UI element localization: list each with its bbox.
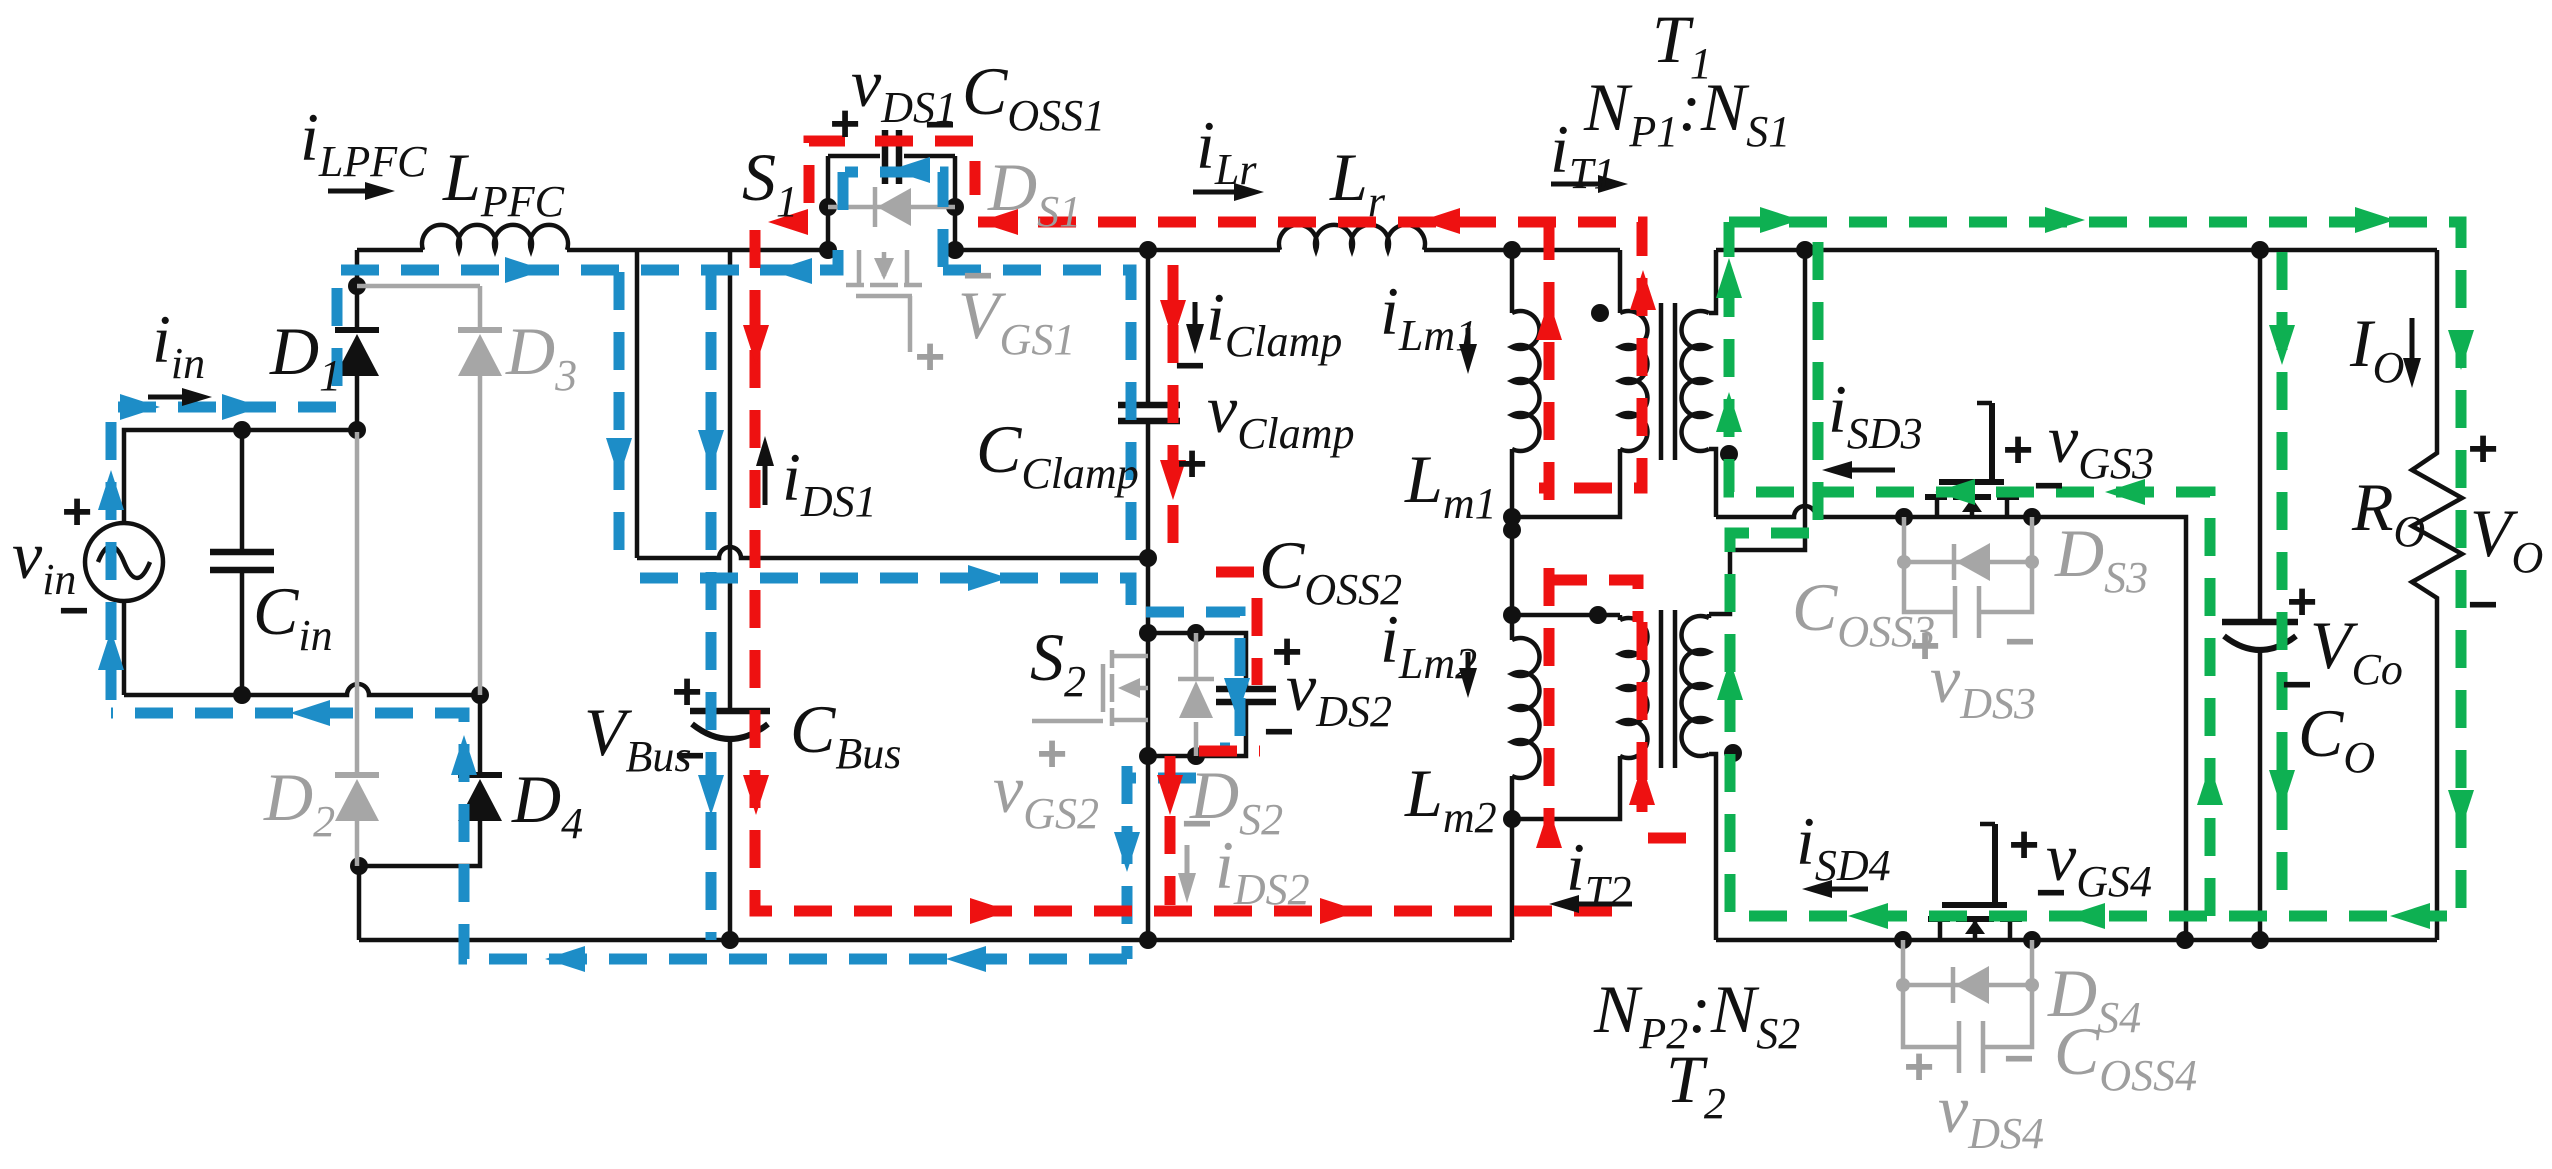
svg-text:−: − — [2468, 576, 2498, 634]
svg-text:CBus: CBus — [790, 691, 901, 778]
svg-text:+: + — [1177, 435, 1207, 493]
svg-text:iLPFC: iLPFC — [300, 99, 427, 186]
svg-text:−: − — [2004, 1030, 2034, 1088]
svg-text:vClamp: vClamp — [1207, 371, 1355, 458]
svg-text:−: − — [675, 727, 705, 785]
svg-text:COSS1: COSS1 — [962, 53, 1105, 140]
svg-text:iT2: iT2 — [1566, 829, 1631, 916]
svg-text:iDS1: iDS1 — [782, 439, 877, 526]
svg-text:−: − — [1264, 703, 1294, 761]
svg-text:+: + — [672, 663, 702, 721]
svg-text:iLm2: iLm2 — [1380, 601, 1477, 688]
svg-text:DS2: DS2 — [1189, 757, 1283, 844]
svg-text:−: − — [963, 247, 993, 305]
svg-text:+: + — [1037, 725, 1067, 783]
svg-text:VCo: VCo — [2310, 607, 2403, 694]
svg-text:+: + — [2287, 573, 2317, 631]
svg-text:VO: VO — [2470, 495, 2543, 582]
svg-text:+: + — [2009, 816, 2039, 874]
svg-text:Lm1: Lm1 — [1404, 441, 1497, 528]
svg-text:D1: D1 — [269, 313, 341, 400]
svg-text:Lr: Lr — [1329, 139, 1386, 226]
svg-text:T2: T2 — [1666, 1041, 1726, 1128]
svg-text:iSD4: iSD4 — [1796, 803, 1891, 890]
svg-text:NP1:NS1: NP1:NS1 — [1583, 69, 1790, 156]
svg-text:iLr: iLr — [1196, 107, 1257, 194]
svg-text:+: + — [1904, 1038, 1934, 1096]
svg-text:D2: D2 — [263, 759, 335, 846]
svg-text:D3: D3 — [505, 313, 577, 400]
svg-text:Lm2: Lm2 — [1404, 755, 1497, 842]
svg-text:S1: S1 — [742, 139, 798, 226]
svg-text:LPFC: LPFC — [442, 139, 565, 226]
svg-text:iin: iin — [152, 301, 205, 388]
svg-text:−: − — [2005, 613, 2035, 671]
svg-text:S2: S2 — [1030, 619, 1086, 706]
svg-text:+: + — [2003, 421, 2033, 479]
svg-text:iLm1: iLm1 — [1380, 273, 1477, 360]
svg-text:−: − — [2036, 864, 2066, 922]
svg-text:DS3: DS3 — [2054, 515, 2148, 602]
svg-text:IO: IO — [2349, 305, 2404, 392]
svg-text:+: + — [2468, 420, 2498, 478]
svg-text:+: + — [915, 328, 945, 386]
svg-text:−: − — [59, 582, 89, 640]
svg-text:+: + — [62, 483, 92, 541]
svg-text:−: − — [2034, 457, 2064, 515]
svg-text:D4: D4 — [511, 761, 583, 848]
svg-text:−: − — [1175, 337, 1205, 395]
svg-text:+: + — [1272, 623, 1302, 681]
svg-text:−: − — [925, 96, 955, 154]
svg-text:Cin: Cin — [253, 573, 333, 660]
svg-text:CClamp: CClamp — [976, 411, 1139, 498]
svg-text:+: + — [830, 95, 860, 153]
svg-text:iSD3: iSD3 — [1828, 371, 1923, 458]
svg-text:CO: CO — [2298, 695, 2375, 782]
svg-text:RO: RO — [2351, 469, 2425, 556]
svg-text:iClamp: iClamp — [1206, 279, 1342, 366]
svg-text:DS1: DS1 — [987, 149, 1081, 236]
